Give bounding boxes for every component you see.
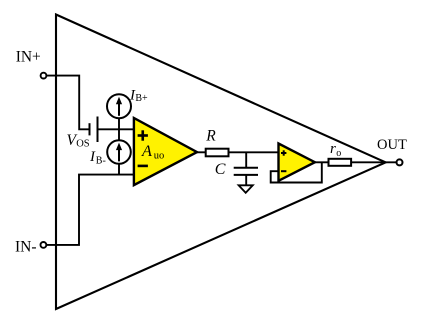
wire C to ground [245, 175, 247, 185]
wire R to buffer plus input [229, 151, 279, 153]
buffer plus sign [281, 150, 286, 155]
resistor ro [329, 159, 352, 166]
IB- current source circle [107, 140, 131, 164]
svg-text:o: o [336, 148, 341, 159]
svg-text:C: C [215, 161, 226, 178]
svg-text:uo: uo [154, 151, 165, 162]
wire A_uo output to R [197, 151, 206, 153]
IB- arrow [118, 149, 120, 162]
resistor R [206, 149, 229, 157]
IN+ terminal [41, 73, 47, 79]
ground symbol [239, 185, 253, 193]
capacitor C bottom plate [234, 174, 258, 176]
op-amp A_uo triangle [134, 118, 197, 185]
IB+ arrow [118, 103, 120, 116]
A_uo minus sign [138, 165, 148, 168]
buffer minus sign [281, 170, 286, 172]
battery VOS short plate [89, 123, 91, 135]
IB- bottom stub [118, 163, 120, 175]
wire IN+ to battery [46, 76, 89, 130]
svg-text:A: A [141, 142, 152, 160]
svg-text:r: r [330, 141, 336, 157]
buffer op-amp triangle [279, 144, 315, 181]
IN- terminal [41, 242, 47, 248]
big op-amp boundary triangle [56, 15, 386, 310]
wire IN- to A_uo minus input [46, 175, 134, 245]
battery VOS long plate [97, 117, 99, 143]
svg-text:B-: B- [96, 155, 106, 166]
A_uo plus sign [138, 130, 148, 140]
wire battery to A_uo plus input [98, 128, 134, 130]
svg-text:OUT: OUT [377, 137, 407, 153]
svg-text:OS: OS [76, 139, 90, 150]
wire ro to OUT [351, 161, 397, 163]
svg-text:IN+: IN+ [16, 49, 41, 66]
svg-text:B+: B+ [135, 93, 148, 104]
svg-text:IN-: IN- [15, 238, 37, 255]
capacitor C top plate [234, 167, 258, 169]
capacitor C stub [245, 152, 247, 168]
IB+ current source circle [107, 94, 131, 118]
svg-text:R: R [205, 128, 216, 145]
IB+ stub to plus wire [118, 117, 120, 129]
wire buffer output to ro [315, 161, 329, 163]
IB- top stub [118, 129, 120, 141]
feedback wire buffer output to minus input [271, 162, 322, 182]
OUT terminal [397, 159, 403, 165]
